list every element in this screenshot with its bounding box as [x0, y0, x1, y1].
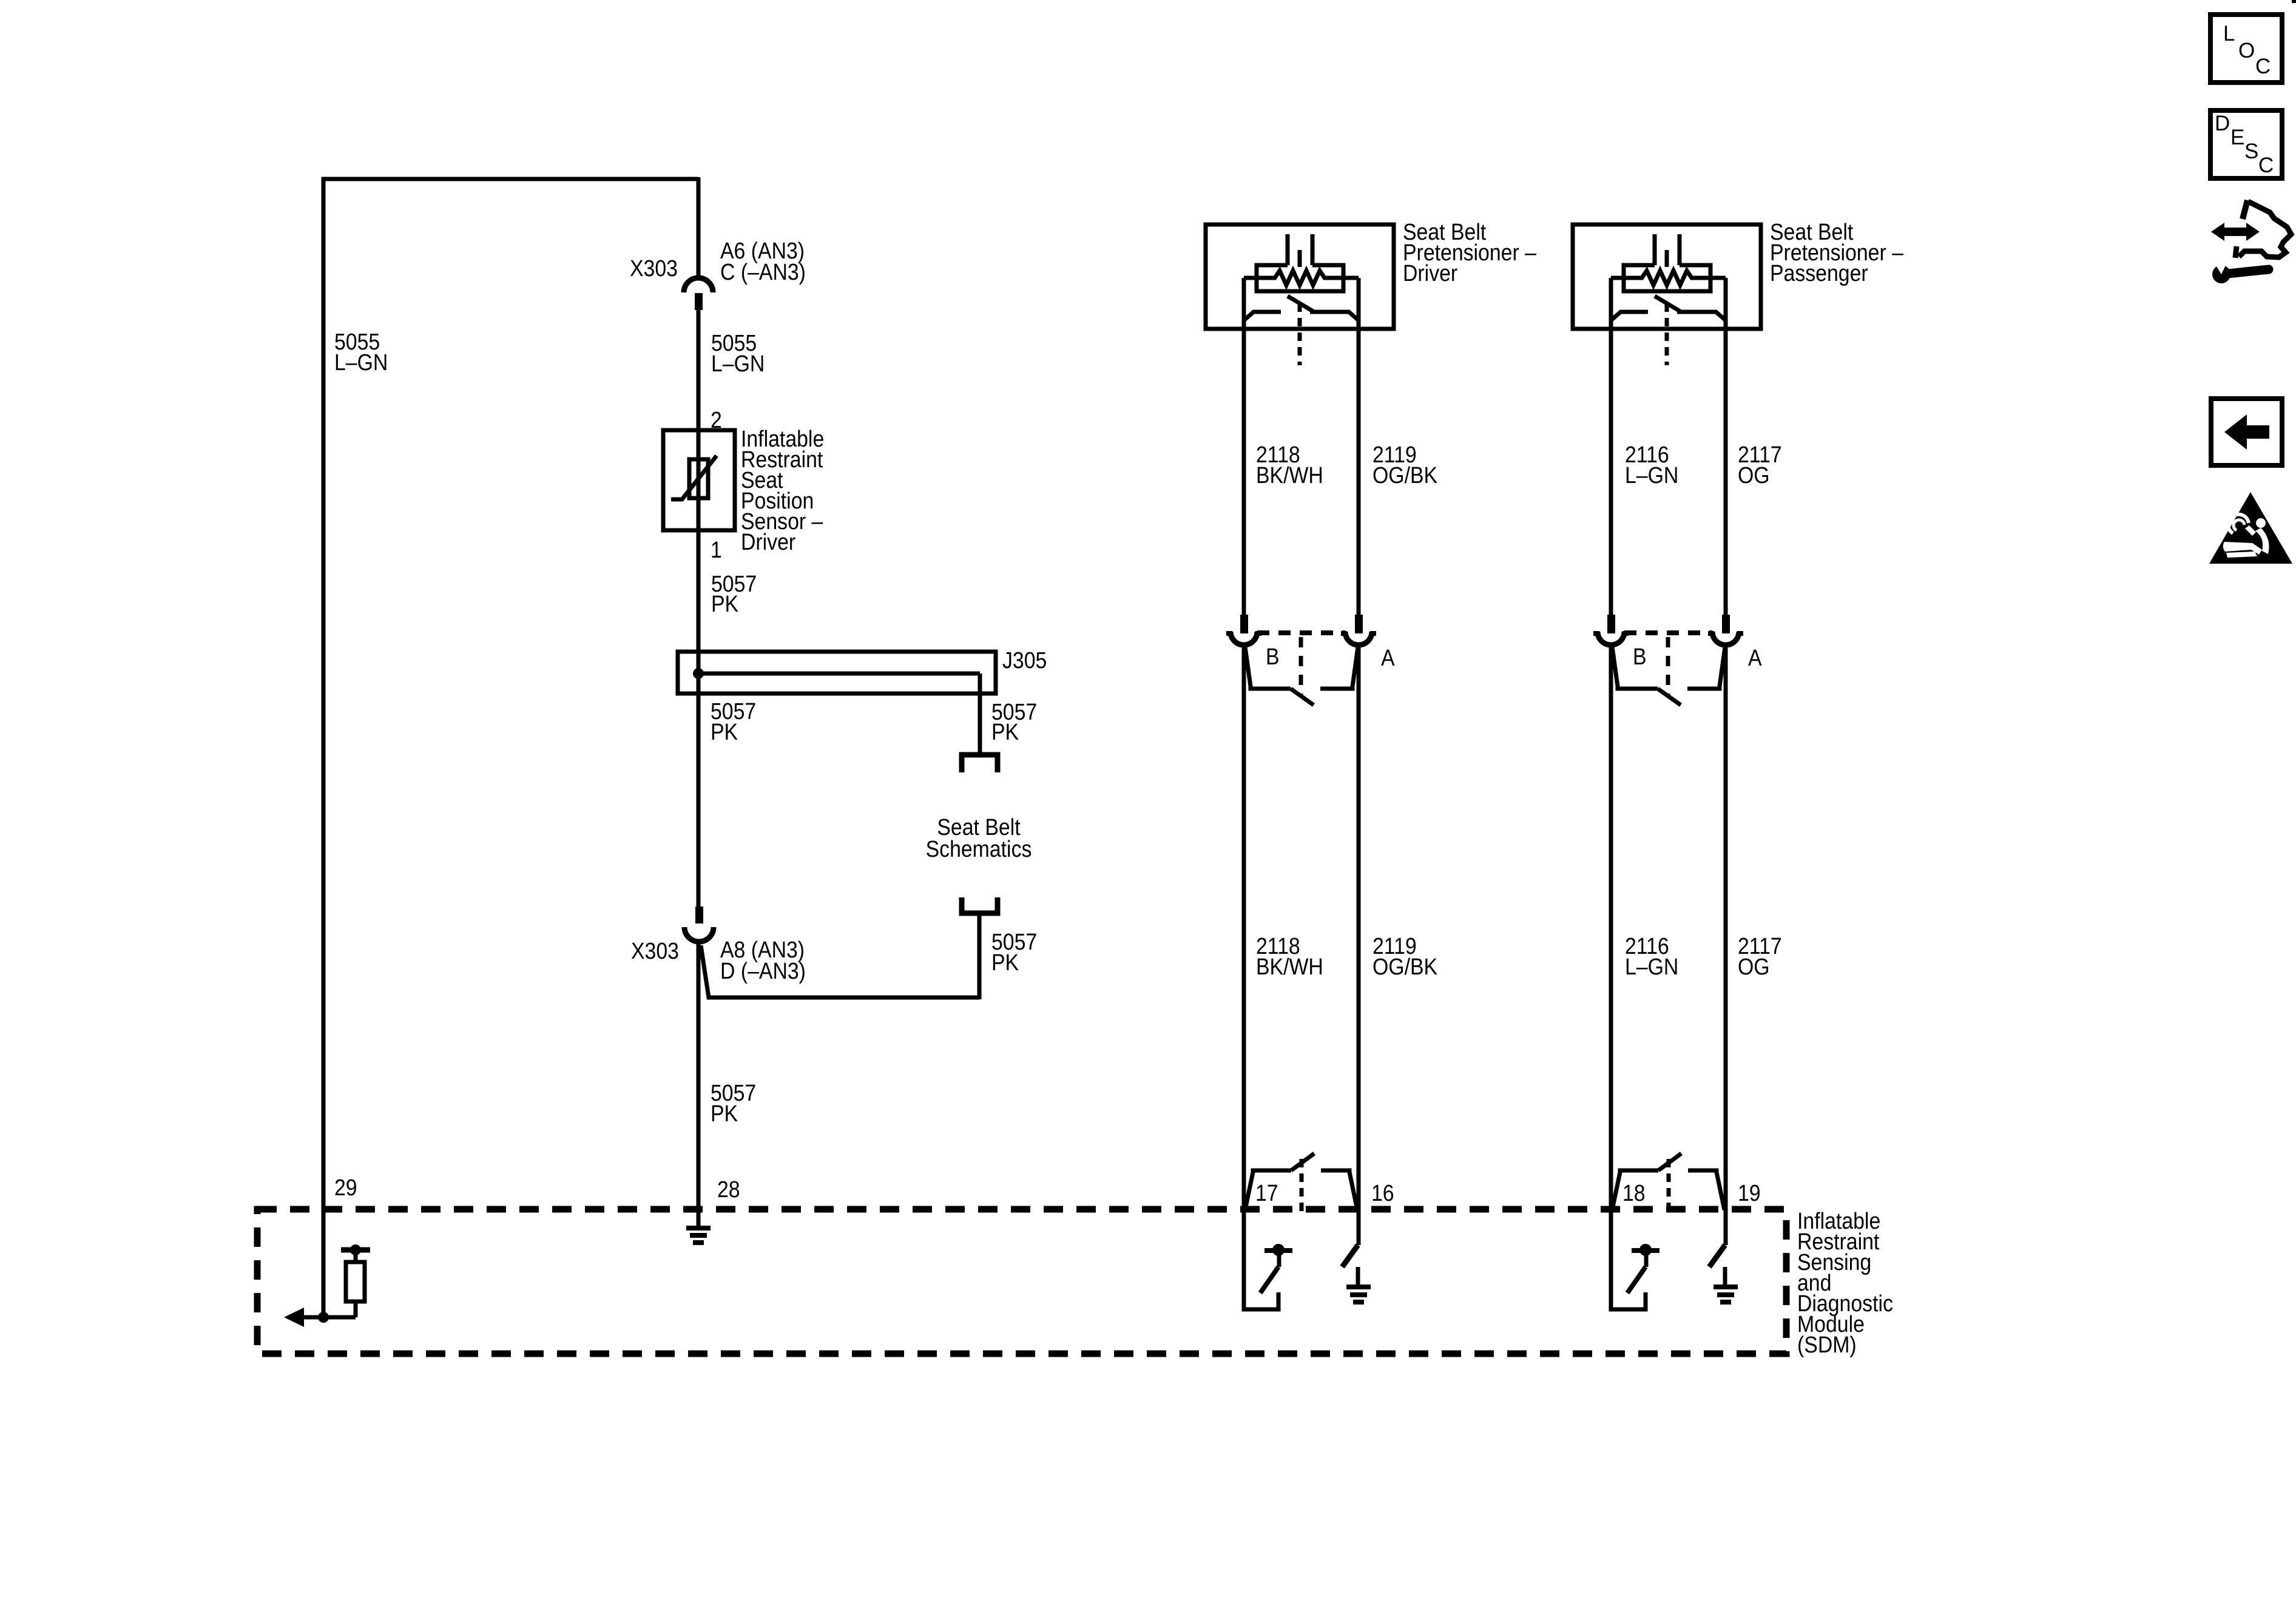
SDM internal switch pin 17 blade: [1260, 1267, 1278, 1293]
junction dot J305: [693, 668, 704, 679]
connector X303 D female half: [684, 927, 714, 942]
svg-text:Driver: Driver: [1403, 260, 1457, 286]
svg-text:L–GN: L–GN: [711, 350, 765, 376]
connector X303 A8 male pin: [695, 906, 703, 923]
connector X303 C male pin: [695, 293, 703, 310]
wire 5055 L-GN left vertical to SDM pin 29: [322, 177, 326, 1317]
heater resistor zigzag driver: [1244, 271, 1359, 285]
svg-text:L: L: [2223, 22, 2235, 46]
svg-text:1: 1: [711, 536, 722, 562]
page corner mark: [2292, 0, 2296, 3]
icon LOC box: [2210, 15, 2282, 83]
svg-text:A: A: [1748, 644, 1762, 670]
wire 2117 OG: [1724, 278, 1728, 615]
svg-text:28: 28: [717, 1176, 740, 1202]
svg-text:Driver: Driver: [741, 528, 795, 555]
svg-text:A: A: [1381, 644, 1395, 670]
wire 5055 L-GN right vertical: [697, 177, 701, 277]
icon DESC box: [2210, 110, 2282, 178]
wire 2117 to SDM pin 19: [1724, 644, 1728, 1245]
shorting bar passenger connector: [1612, 647, 1658, 689]
squib body passenger: [1624, 265, 1710, 291]
inline connector passenger pin A male: [1722, 615, 1730, 633]
wire 5055 L-GN top horizontal: [322, 177, 698, 181]
SDM internal pin 16 blade: [1342, 1245, 1358, 1267]
off-page bracket lower: [962, 897, 998, 913]
wire 2116 to SDM pin 18: [1609, 644, 1613, 1190]
squib prongs passenger: [1653, 234, 1657, 265]
svg-text:S: S: [2244, 140, 2258, 163]
SDM pin 18 contact: [1612, 1170, 1658, 1210]
svg-text:18: 18: [1622, 1180, 1646, 1206]
svg-text:L–GN: L–GN: [334, 349, 388, 375]
SDM pin 17 blade: [1291, 1153, 1314, 1170]
SDM internal resistor branch: [354, 1301, 358, 1317]
SDM internal pin 19 blade: [1709, 1245, 1725, 1267]
SDM internal ground pin 16: [1356, 1267, 1360, 1285]
wire 5055 L-GN to sensor: [697, 310, 701, 530]
pretensioner passenger box: [1573, 224, 1761, 329]
SDM pins 17-16 dashed actuator: [1300, 1159, 1304, 1212]
SDM internal node pin 17: [1277, 1252, 1281, 1267]
icon electrical repair: outline: [2239, 201, 2291, 257]
svg-text:O: O: [2238, 39, 2255, 62]
J305 bus bar: [698, 672, 980, 676]
SDM internal pin 29 junction: [318, 1312, 329, 1323]
svg-text:L–GN: L–GN: [1625, 953, 1678, 979]
heater resistor zigzag passenger: [1611, 271, 1726, 285]
SDM dashed box: [257, 1209, 1786, 1354]
svg-text:X303: X303: [630, 255, 678, 281]
SDM internal switch pin 17 hook: [1244, 1190, 1278, 1309]
connector X303 C female half: [684, 278, 713, 292]
wire 2116 L-GN: [1609, 278, 1613, 615]
svg-text:PK: PK: [991, 949, 1019, 975]
svg-text:J305: J305: [1002, 647, 1047, 673]
SDM pin 17 contact: [1245, 1170, 1291, 1210]
inline connector driver cup B: [1231, 632, 1257, 645]
shorting bar driver connector: [1245, 647, 1291, 689]
inline connector passenger cup B: [1598, 632, 1624, 645]
ground symbol at SDM pin 28: [686, 1226, 711, 1230]
seat position sensor box: [663, 430, 735, 530]
svg-text:OG/BK: OG/BK: [1373, 953, 1437, 979]
svg-text:19: 19: [1738, 1180, 1761, 1206]
svg-text:D: D: [2215, 112, 2230, 135]
svg-text:BK/WH: BK/WH: [1256, 953, 1323, 979]
inline connector passenger cup A: [1712, 632, 1739, 645]
wire 5057 PK to SDM pin 28: [697, 940, 701, 1226]
SDM pin 18 blade: [1658, 1153, 1681, 1170]
svg-text:E: E: [2230, 126, 2244, 149]
icon back arrow box: [2211, 399, 2282, 465]
svg-text:OG: OG: [1738, 953, 1770, 979]
svg-text:C (–AN3): C (–AN3): [720, 258, 806, 285]
svg-text:OG/BK: OG/BK: [1373, 462, 1437, 488]
SDM pin 16 contact: [1321, 1170, 1357, 1210]
icon electrical repair: wrench: [2212, 265, 2230, 283]
svg-text:16: 16: [1371, 1180, 1394, 1206]
wire 2119 OG/BK: [1357, 278, 1361, 615]
svg-text:PK: PK: [991, 718, 1019, 744]
svg-text:PK: PK: [711, 1100, 738, 1126]
inline connector driver pin B male: [1240, 615, 1248, 633]
svg-text:C: C: [2255, 55, 2271, 78]
SDM internal node pin 29: [341, 1247, 370, 1253]
SDM internal switch pin 18 hook: [1611, 1190, 1646, 1309]
inline connector driver dashed actuator: [1299, 637, 1303, 697]
wire 2119 to SDM pin 16: [1357, 644, 1361, 1245]
SDM pin 19 contact: [1688, 1170, 1724, 1210]
svg-text:B: B: [1633, 643, 1647, 669]
SDM pins 18-19 dashed actuator: [1667, 1159, 1671, 1212]
svg-text:X303: X303: [631, 937, 679, 964]
wire 2118 BK/WH: [1242, 278, 1246, 615]
SDM internal resistor: [346, 1262, 365, 1301]
squib prongs driver: [1286, 234, 1290, 265]
inline connector passenger dashed body: [1624, 630, 1712, 635]
off-page bracket upper: [962, 755, 998, 772]
svg-text:B: B: [1266, 643, 1280, 669]
wire J305 to off-page bracket: [978, 673, 982, 752]
svg-text:D (–AN3): D (–AN3): [720, 957, 806, 984]
SDM internal arrow left: [302, 1315, 356, 1320]
svg-text:Passenger: Passenger: [1770, 260, 1868, 286]
squib actuator dashed passenger: [1665, 303, 1669, 365]
svg-text:29: 29: [334, 1174, 357, 1200]
wire bracket down to corner: [977, 913, 982, 999]
position sensor resistor element: [689, 459, 708, 498]
wire horizontal to X303 D: [701, 945, 979, 998]
squib switch blade passenger: [1655, 296, 1680, 311]
splice pack J305 box: [678, 652, 996, 694]
squib actuator dashed driver: [1298, 303, 1302, 365]
svg-text:OG: OG: [1738, 462, 1770, 488]
inline connector driver pin A male: [1355, 615, 1363, 633]
inline connector driver cup A: [1345, 632, 1372, 645]
shorting contact bars driver: [1244, 312, 1281, 320]
position sensor wiper arrow: [671, 456, 717, 499]
svg-text:(SDM): (SDM): [1797, 1331, 1857, 1357]
squib body driver: [1257, 265, 1343, 291]
svg-text:L–GN: L–GN: [1625, 462, 1678, 488]
shorting contact bars passenger: [1611, 312, 1648, 320]
svg-text:PK: PK: [711, 590, 738, 616]
svg-text:C: C: [2258, 154, 2274, 177]
wire 2118 to SDM pin 17: [1242, 644, 1246, 1190]
SDM internal node pin 18: [1644, 1252, 1649, 1267]
squib switch blade driver: [1288, 296, 1313, 311]
inline connector passenger pin B male: [1607, 615, 1615, 633]
inline connector driver dashed body: [1257, 630, 1345, 635]
svg-text:Schematics: Schematics: [926, 836, 1032, 862]
wire 5057 PK J305 to X303: [697, 694, 701, 908]
svg-text:PK: PK: [711, 718, 738, 744]
SDM internal switch pin 18 blade: [1627, 1267, 1646, 1293]
pretensioner driver box: [1206, 224, 1394, 329]
wire 5057 PK sensor to J305: [697, 530, 701, 694]
icon electrical repair: double arrow: [2211, 223, 2260, 241]
icon SRS warning triangle: [2209, 492, 2292, 564]
SDM internal ground pin 19: [1723, 1267, 1727, 1285]
svg-text:17: 17: [1255, 1180, 1278, 1206]
inline connector passenger dashed actuator: [1666, 637, 1670, 697]
svg-text:BK/WH: BK/WH: [1256, 462, 1323, 488]
